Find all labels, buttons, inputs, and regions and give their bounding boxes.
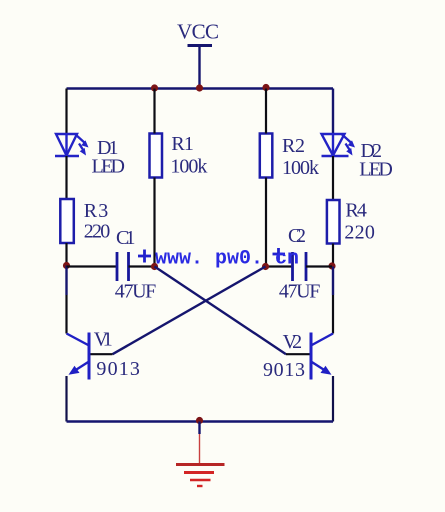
wire right rail to V2 xyxy=(332,295,334,334)
resistor R4 xyxy=(327,200,340,244)
svg-text:VCC: VCC xyxy=(177,20,219,44)
svg-text:R4: R4 xyxy=(345,200,367,222)
wire right rail mid xyxy=(332,267,334,296)
wire left rail to V1 xyxy=(65,295,67,334)
svg-text:100k: 100k xyxy=(282,157,319,179)
svg-text:R1: R1 xyxy=(171,133,194,155)
svg-text:LED: LED xyxy=(359,159,393,181)
node junction top R2 xyxy=(262,84,269,91)
svg-text:V1: V1 xyxy=(94,329,113,351)
LED D2 xyxy=(322,134,356,156)
wire V2 emitter to bottom rail xyxy=(332,376,334,422)
svg-text:R3: R3 xyxy=(84,200,109,222)
svg-text:C1: C1 xyxy=(116,227,136,249)
svg-text:47UF: 47UF xyxy=(115,281,157,303)
ground xyxy=(176,422,225,487)
svg-text:220: 220 xyxy=(344,222,375,244)
wire bottom rail xyxy=(67,420,334,422)
svg-text:V2: V2 xyxy=(283,331,303,353)
plus sign of C1 xyxy=(138,250,151,263)
plus sign of C2 xyxy=(273,248,286,261)
wire D2 to R4 xyxy=(332,156,334,200)
wire R4 to node xyxy=(332,244,334,267)
node junction C2 left xyxy=(262,263,269,270)
transistor V2 xyxy=(311,333,333,380)
wire V1 base stub xyxy=(90,353,113,355)
wire cross coupling C1 to V2 base xyxy=(155,267,287,355)
LED D1 xyxy=(55,134,89,156)
capacitor C2 xyxy=(266,252,332,281)
wire VCC stem xyxy=(198,46,200,89)
svg-text:100k: 100k xyxy=(170,156,207,178)
node junction top R1 xyxy=(151,84,158,91)
svg-text:9013: 9013 xyxy=(263,359,305,381)
wire R2 bottom pin xyxy=(265,178,267,267)
wire R1 bottom pin xyxy=(153,178,155,267)
transistor V1 xyxy=(67,333,90,380)
wire R1 top pin xyxy=(153,89,155,134)
svg-text:9013: 9013 xyxy=(96,358,139,380)
node junction C1 left xyxy=(63,262,70,269)
svg-text:LED: LED xyxy=(92,156,126,178)
wire D1 to R3 xyxy=(65,156,67,199)
wire V2 base stub xyxy=(286,353,310,355)
svg-text:220: 220 xyxy=(84,221,111,243)
svg-text:R2: R2 xyxy=(282,135,305,157)
svg-text:C2: C2 xyxy=(288,225,306,247)
VCC power bar xyxy=(188,44,213,47)
node junction ground xyxy=(196,417,203,424)
wire right rail upper xyxy=(332,89,334,135)
resistor R2 xyxy=(260,134,273,178)
wire top rail xyxy=(67,87,334,89)
resistor R1 xyxy=(150,134,163,178)
svg-text:www. pw0. cn: www. pw0. cn xyxy=(155,248,299,271)
wire R2 top pin xyxy=(265,89,267,134)
svg-text:47UF: 47UF xyxy=(279,281,321,303)
wire V1 emitter to bottom rail xyxy=(65,376,67,422)
wire cross coupling C2 to V1 base xyxy=(113,267,266,355)
node junction C1 right xyxy=(151,263,158,270)
wire left rail mid xyxy=(65,266,67,296)
capacitor C1 xyxy=(67,252,155,281)
node junction top VCC xyxy=(196,84,203,91)
wire left rail upper xyxy=(65,89,67,135)
node junction C2 right xyxy=(328,262,335,269)
wire R3 to node xyxy=(65,243,67,266)
resistor R3 xyxy=(60,199,74,243)
